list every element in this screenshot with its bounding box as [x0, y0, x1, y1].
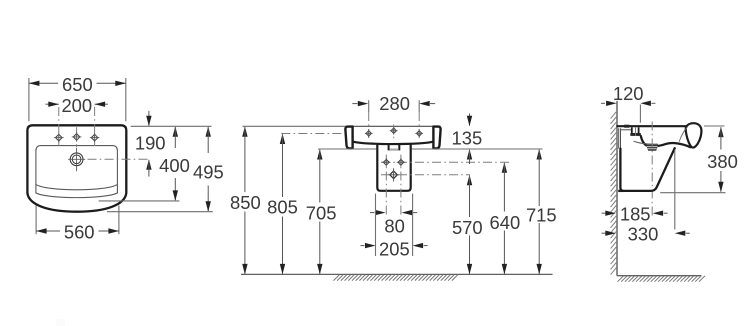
svg-text:640: 640	[490, 212, 521, 233]
dim 560 right extension line	[118, 206, 120, 235]
rear view: pedestal left hole centerline	[385, 155, 387, 218]
washbasin front view: outer outline	[27, 125, 126, 211]
dim 400 upper shaft	[174, 127, 176, 148]
dim 640 bottom arrow	[502, 264, 507, 275]
rear view: bottom line right segment	[412, 148, 543, 150]
side view: tap hole flange	[630, 133, 640, 136]
front view: center tap hole centerline	[76, 127, 78, 147]
dim 650 left extension line	[28, 78, 30, 121]
svg-text:805: 805	[267, 197, 298, 218]
dim 715 upper shaft	[538, 150, 540, 206]
dim 205 left tail+arrow	[361, 243, 376, 248]
rear view: drain hole vertical centerline	[393, 168, 395, 181]
dim 80 right arrow+tail	[402, 210, 418, 215]
dim 330 extension line	[674, 150, 676, 230]
dim 190 upper arrow	[146, 116, 151, 127]
dim 330 right arrow+tail	[675, 231, 690, 236]
side view: bowl inner back edge	[634, 141, 658, 144]
svg-text:280: 280	[379, 93, 410, 114]
side view: pedestal outline	[618, 148, 675, 191]
dim 805 top arrow	[280, 134, 285, 145]
dim 280 label	[379, 93, 410, 114]
dim 495 bottom reference line	[107, 211, 213, 213]
dim 805 bottom arrow	[280, 264, 285, 275]
dim 850 lower shaft	[244, 212, 246, 274]
dim 560 left arrow	[36, 228, 47, 233]
dim 200 line right stub	[95, 103, 108, 105]
front view: right tap hole centerline	[94, 107, 96, 146]
front view: drain vertical centerline	[76, 148, 78, 172]
dim 330 label	[628, 224, 659, 245]
dim 560 left extension line	[35, 206, 37, 235]
side view: rim top line	[616, 125, 686, 127]
dim 190 lower arrow	[146, 159, 151, 170]
dim 280 left tail	[352, 103, 357, 105]
side view: deck underside line	[621, 129, 632, 131]
dim 570 lower shaft	[469, 236, 471, 274]
dim 380 top reference line	[704, 125, 725, 127]
svg-text:190: 190	[135, 133, 166, 154]
dim 650 right arrow	[115, 81, 126, 86]
dim 280 right arrow	[419, 101, 430, 106]
rear view: basin top edge	[345, 125, 440, 127]
side view: back wall double line A	[618, 128, 620, 148]
dim 705 top arrow	[317, 149, 322, 160]
dim 400 label	[159, 155, 190, 176]
side view: tap slot centerline	[635, 127, 637, 138]
rear view: horizontal centerline	[281, 133, 345, 135]
dim 190 label	[135, 133, 166, 154]
dim 650 line right segment	[97, 82, 126, 84]
dim 640 label	[490, 212, 521, 233]
dim 650 right extension line	[125, 78, 127, 121]
rear view: pedestal outline	[377, 145, 410, 191]
dim 80 left tail+arrow	[370, 210, 386, 215]
dim 495 upper shaft	[207, 127, 209, 153]
dim 705 upper shaft	[319, 150, 321, 203]
dim 280 right tail	[430, 103, 435, 105]
dim 380 lower shaft	[720, 171, 722, 192]
front view: inner basin rim	[36, 146, 118, 193]
dim 850 top arrow	[242, 126, 247, 137]
svg-text:715: 715	[526, 205, 557, 226]
dim 380 bottom arrow	[718, 182, 723, 193]
front view: center tap hole	[72, 132, 82, 142]
dim 495 lower shaft	[207, 186, 209, 212]
dim 570 label	[452, 217, 483, 238]
dim 280 left arrow	[358, 101, 369, 106]
rear view: drain hole horizontal centerline	[381, 174, 470, 176]
rear view: overflow notch bottom	[390, 149, 399, 151]
rear view: right tap hole centerline	[418, 112, 420, 141]
side view: drain centerline	[651, 122, 653, 219]
front view: drain horizontal centerline	[68, 158, 85, 160]
rear view: center tap hole centerline	[393, 125, 395, 139]
dim 715 label	[526, 205, 557, 226]
front view: drain outer circle	[70, 153, 83, 166]
dim 330 left tail+arrow	[602, 231, 616, 236]
front view: inner ledge upper arc	[36, 184, 118, 189]
dim 135 label	[452, 128, 483, 149]
side view: back wall double line B	[620, 128, 622, 148]
wall hatching	[611, 112, 617, 275]
rear view: pedestal right hole centerline	[400, 155, 402, 218]
front view: right tap hole	[90, 133, 100, 143]
rear view: left tap hole	[365, 130, 373, 138]
side view: bowl bottom shell to apron tip	[648, 143, 691, 147]
svg-text:135: 135	[452, 128, 483, 149]
side view: apron inner thin edge	[679, 127, 687, 141]
dim 715 top arrow	[537, 149, 542, 160]
rear view: pedestal right hole	[397, 158, 405, 166]
dim 805 label	[267, 197, 298, 218]
dim 400 bottom reference line	[99, 200, 180, 202]
svg-text:650: 650	[62, 74, 93, 95]
dim 205 right extension	[412, 194, 414, 256]
svg-text:80: 80	[384, 216, 404, 237]
front view: left tap hole centerline	[58, 107, 60, 146]
front view: drain centerline extending right	[88, 158, 149, 160]
dim 705 bottom arrow	[317, 264, 322, 275]
svg-text:185: 185	[620, 204, 651, 225]
dim 120 label	[613, 83, 644, 104]
top reference line (rear view)	[243, 125, 346, 127]
dim 560 line right segment	[99, 230, 119, 232]
dim 715 bottom arrow	[537, 264, 542, 275]
dim 400 lower shaft	[174, 178, 176, 200]
dim 715 lower shaft	[538, 223, 540, 274]
dim 380 top arrow	[718, 127, 723, 138]
floor hatching (side view)	[618, 276, 705, 282]
rear view: bottom line left segment	[318, 148, 376, 150]
svg-text:570: 570	[452, 217, 483, 238]
side view: bowl S-curve from deck	[641, 136, 648, 146]
dim 400 upper arrow	[173, 126, 178, 137]
svg-text:560: 560	[64, 222, 95, 243]
dim 640 lower shaft	[503, 231, 505, 274]
dim 205 label	[379, 238, 410, 259]
top reference line (left view)	[131, 125, 212, 127]
rear view: overflow notch right wall	[398, 144, 400, 150]
dim 570 upper shaft	[469, 176, 471, 218]
floor hatching (rear view)	[334, 275, 458, 281]
side view: rim bracket block	[624, 125, 629, 128]
rear view: right tap hole	[415, 130, 423, 138]
dim 650 left arrow	[29, 81, 40, 86]
dim 650 label	[62, 74, 93, 95]
wall line (side view)	[616, 101, 618, 276]
side view: tap hole left wall	[631, 127, 633, 133]
dim 200 label	[61, 95, 92, 116]
dim 570 bottom arrow	[467, 264, 472, 275]
dim 570 top arrow	[467, 175, 472, 186]
dim 560 label	[64, 222, 95, 243]
dim 205 left extension	[375, 194, 377, 256]
svg-text:330: 330	[628, 224, 659, 245]
rear view: center tap hole	[390, 127, 398, 135]
dim 560 line left segment	[36, 230, 60, 232]
rear view: left end cap	[345, 127, 352, 149]
dim 640 top arrow	[502, 162, 507, 173]
dim 120 right extension	[639, 105, 641, 123]
dim 640 upper shaft	[503, 163, 505, 212]
dim 280 left extension	[368, 100, 370, 112]
svg-text:705: 705	[306, 203, 337, 224]
rear view: pedestal drain hole	[388, 170, 398, 180]
dim 200 left arrow	[48, 102, 59, 107]
svg-text:850: 850	[230, 192, 261, 213]
side view: drain boss hatch	[646, 145, 659, 151]
front view: left tap hole	[54, 133, 64, 143]
dim 135 upper shaft+arrow	[467, 114, 472, 127]
front view: drain inner circle	[72, 155, 81, 164]
dim 495 label	[193, 161, 224, 182]
dim 495 lower arrow	[206, 201, 211, 212]
faint logo remnant	[56, 319, 65, 326]
rear view: pedestal left hole	[382, 158, 390, 166]
dim 400 lower arrow	[173, 190, 178, 201]
svg-text:400: 400	[159, 155, 190, 176]
dim 805 lower shaft	[282, 217, 284, 274]
dim 200 right arrow	[95, 102, 106, 107]
svg-text:120: 120	[613, 83, 644, 104]
dim 380 bottom reference line	[660, 192, 725, 194]
dim 205 right arrow+tail	[413, 243, 428, 248]
dim 850 bottom arrow	[242, 264, 247, 275]
dim 200 line left stub	[46, 103, 59, 105]
dim 185 right arrow+tail	[653, 211, 668, 216]
svg-text:205: 205	[379, 238, 410, 259]
dim 705 lower shaft	[319, 222, 321, 274]
dim 280 right extension	[418, 100, 420, 112]
dim 705 label	[306, 203, 337, 224]
dim 850 upper shaft	[244, 127, 246, 192]
dim 120 right arrow+tail	[640, 101, 655, 106]
dim 560 right arrow	[108, 228, 119, 233]
front view: inner ledge lower arc	[36, 193, 118, 198]
svg-text:380: 380	[707, 151, 738, 172]
rear view: left tap hole centerline	[368, 112, 370, 141]
dim 190 upper shaft	[148, 111, 150, 126]
svg-text:495: 495	[193, 161, 224, 182]
dim 380 label	[707, 151, 738, 172]
dim 80 label	[384, 216, 404, 237]
dim 120 left tail+arrow	[601, 101, 617, 106]
rear view: pedestal holes horizontal centerline	[381, 161, 510, 163]
dim 650 line left segment	[29, 82, 58, 84]
dim 185 left tail+arrow	[602, 211, 616, 216]
dim 805 upper shaft	[282, 134, 284, 197]
rear view: basin bottom edge	[353, 142, 434, 144]
dim 495 upper arrow	[206, 126, 211, 137]
dim 135 lower arrow+shaft	[467, 149, 472, 164]
svg-text:200: 200	[61, 95, 92, 116]
dim 850 label	[230, 192, 261, 213]
side view: tap hole right wall	[638, 127, 640, 133]
dim 190 lower shaft	[148, 160, 150, 177]
rear view: overflow notch left wall	[388, 144, 390, 150]
rear view: right end cap	[433, 127, 440, 149]
side view: front apron	[686, 123, 702, 147]
dim 185 label	[620, 204, 651, 225]
dim 380 upper shaft	[720, 127, 722, 149]
floor line (side view)	[617, 275, 701, 277]
floor line (rear view)	[241, 273, 553, 275]
